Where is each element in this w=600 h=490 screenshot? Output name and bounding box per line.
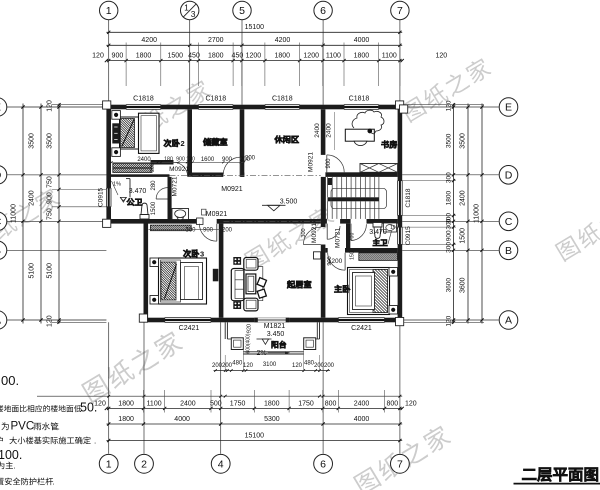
interior dims storage [191, 157, 250, 163]
door M1821 (balcony, south) [254, 318, 289, 323]
grid bubble 1 (bottom) [99, 322, 118, 473]
svg-text:2400: 2400 [354, 401, 370, 408]
door M0921 study [327, 155, 344, 172]
svg-text:800: 800 [386, 401, 398, 408]
column marker NE corner [396, 101, 408, 113]
svg-text:2400: 2400 [314, 123, 321, 138]
room label living [287, 281, 311, 289]
svg-text:D: D [505, 169, 513, 181]
svg-text:B: B [0, 245, 1, 257]
label C1818 #4 [349, 95, 370, 102]
svg-text:120: 120 [292, 363, 303, 369]
svg-text:7: 7 [397, 459, 403, 471]
wall exterior north (grid E) [106, 105, 402, 110]
right dimension texts [446, 100, 481, 327]
grid bubble 4 (bottom) [211, 322, 230, 473]
wall interior grid 6 lower [321, 177, 326, 318]
svg-text:1800: 1800 [208, 53, 224, 60]
svg-text:4: 4 [218, 459, 224, 471]
svg-text:1200: 1200 [303, 53, 319, 60]
label C0915 west [98, 187, 105, 207]
svg-text:C1818: C1818 [133, 95, 154, 102]
wall step at grid C west [106, 219, 150, 224]
label C1818 #1 [133, 95, 154, 102]
interior dim balcony left [246, 324, 253, 354]
interior dim study door [326, 158, 332, 169]
svg-text:120: 120 [405, 401, 417, 408]
note line 6 [0, 462, 16, 471]
svg-text:3.450: 3.450 [267, 331, 285, 338]
wall living north (grid C) [217, 219, 321, 224]
wall stair south (grid C) [321, 219, 398, 224]
wall bath east [168, 177, 172, 219]
door M0921 bedroom2 [174, 162, 188, 176]
door M0721 bath [156, 188, 167, 199]
column marker W step [103, 219, 111, 227]
label M0921 corridor-bedroom3 [202, 209, 228, 218]
svg-text:1800: 1800 [136, 53, 152, 60]
wall interior grid 6 upper [321, 109, 326, 155]
bed (bedroom3) [150, 258, 207, 304]
svg-text:M0921: M0921 [206, 211, 228, 218]
shower partition (bath) [112, 179, 131, 201]
svg-text:200: 200 [324, 363, 335, 369]
svg-text:600(400): 600(400) [246, 333, 252, 353]
svg-text:C2421: C2421 [351, 325, 372, 332]
balcony parapet [225, 322, 319, 354]
svg-text:3.500: 3.500 [280, 198, 298, 205]
dimension row axis spans (top) [106, 37, 402, 47]
svg-text:C1818: C1818 [205, 95, 226, 102]
toilet (master bath) [373, 223, 382, 239]
grid bubble 5 (top) [233, 1, 251, 104]
interior dim master door [327, 256, 333, 265]
svg-text:A: A [0, 315, 1, 327]
svg-text:C2421: C2421 [179, 325, 200, 332]
svg-text:200: 200 [150, 163, 156, 172]
room label bedroom2 [164, 139, 185, 148]
room label storage [203, 138, 227, 146]
svg-text:700: 700 [350, 233, 356, 242]
svg-text:180: 180 [164, 157, 173, 163]
label C0915 east [405, 226, 412, 246]
column marker SW corner [139, 314, 147, 322]
svg-text:280: 280 [151, 180, 157, 191]
svg-text:200: 200 [222, 228, 233, 234]
svg-text:7: 7 [397, 5, 403, 17]
svg-text:.: . [94, 437, 96, 446]
dimension row total 15100 (bottom) [106, 432, 402, 442]
grid bubble C (right) [402, 212, 518, 231]
grid bubble B (right) [402, 241, 518, 260]
wall exterior south (grid A) [144, 318, 403, 323]
svg-text:750: 750 [47, 176, 54, 188]
svg-text:800: 800 [325, 401, 337, 408]
note line 2 [0, 401, 97, 415]
svg-text:900: 900 [176, 157, 185, 163]
bed (master bedroom) [348, 268, 398, 315]
wall corridor south (grid C) w/ bedroom3 top [148, 219, 223, 224]
grid bubble 1/3 (top) [181, 1, 199, 104]
note line 1 (clipped) [1, 373, 19, 388]
svg-text:C: C [505, 216, 513, 228]
label M0721 bath [172, 176, 179, 196]
wall exterior west upper (grid 1) [106, 105, 111, 224]
level mark 3.470 (bath) [113, 182, 146, 203]
room label bath [127, 198, 142, 205]
label C1818 #3 [272, 95, 293, 102]
svg-text:1800: 1800 [118, 401, 134, 408]
wall exterior east (grid 7) [398, 105, 403, 323]
svg-text:2%: 2% [256, 350, 266, 357]
column marker living SE [314, 252, 321, 259]
label M0721 master bath [335, 228, 342, 248]
svg-text:2400: 2400 [180, 401, 196, 408]
svg-text:M0721: M0721 [335, 228, 342, 248]
dimension row total 15100 (top) [106, 24, 402, 34]
column marker grid4 south [197, 218, 204, 225]
svg-text:3500: 3500 [29, 133, 36, 149]
svg-text:3100: 3100 [263, 362, 277, 368]
svg-text:15100: 15100 [245, 432, 265, 439]
svg-text:1800: 1800 [354, 53, 370, 60]
svg-text:C1818: C1818 [405, 188, 412, 208]
grid bubble A (left, clipped) [0, 311, 106, 330]
svg-text:900: 900 [446, 230, 453, 241]
svg-text:5100: 5100 [29, 263, 36, 279]
svg-text:750: 750 [47, 208, 54, 220]
wall storage south (grid D) [192, 173, 244, 177]
svg-text:200: 200 [222, 363, 233, 369]
room label study [381, 141, 396, 149]
svg-text:3.470: 3.470 [129, 188, 147, 195]
window C1818 #4 (north) [344, 105, 379, 110]
interior dim leisure [245, 123, 321, 162]
grid bubble 7 (top) [391, 1, 409, 104]
tv (bedroom3) [213, 269, 219, 282]
interior dim bath [150, 163, 157, 215]
svg-text:C0915: C0915 [98, 187, 105, 207]
wardrobe (bedroom2) [113, 164, 152, 173]
right dimension lines [402, 103, 484, 324]
door M0921 master bath entry [351, 224, 366, 241]
svg-text:1%: 1% [113, 182, 121, 188]
left dimension texts [11, 100, 54, 327]
grid bubble 7 (bottom) [391, 322, 410, 473]
svg-text:E: E [505, 102, 512, 114]
svg-text:120: 120 [47, 315, 54, 327]
centerline grid D [170, 175, 321, 177]
wall bedroom3 east [219, 224, 224, 318]
svg-text:00.: 00. [1, 373, 19, 388]
svg-text:.: . [14, 462, 16, 471]
room label master-bath [373, 239, 387, 246]
svg-text:150: 150 [350, 251, 356, 260]
label C2421 #1 [179, 325, 200, 332]
watermark bottom-center [352, 423, 452, 490]
svg-text:3500: 3500 [446, 133, 453, 148]
svg-text:2: 2 [141, 459, 147, 471]
svg-text:1: 1 [106, 459, 112, 471]
label C1818 #2 [205, 95, 226, 102]
svg-text:C1818: C1818 [349, 95, 370, 102]
window C1818 #3 (north) [265, 105, 300, 110]
dimension row wall segments (top) [92, 43, 447, 87]
svg-text:3600: 3600 [446, 278, 453, 293]
svg-text:A: A [505, 315, 512, 327]
svg-text:1800: 1800 [446, 190, 453, 205]
note line 7 [0, 478, 55, 487]
label M0921 study [308, 152, 315, 172]
svg-text:6: 6 [320, 459, 326, 471]
svg-text:120: 120 [446, 315, 453, 326]
note line 5 [0, 448, 22, 462]
svg-text:B: B [505, 245, 512, 257]
washbasin (master bath) [384, 223, 397, 232]
svg-text:450: 450 [232, 53, 244, 60]
svg-text:300: 300 [301, 228, 307, 237]
balcony level 3.450 and slope [256, 331, 289, 357]
label M0921 living [301, 223, 318, 243]
centerline grid C [223, 220, 320, 222]
svg-text:M0721: M0721 [172, 176, 179, 196]
note line 3 [1, 421, 59, 433]
svg-text:1800: 1800 [118, 416, 134, 423]
svg-text:1200: 1200 [246, 53, 262, 60]
svg-text:120: 120 [92, 53, 104, 60]
svg-text:1500: 1500 [168, 53, 184, 60]
svg-text:M0921: M0921 [221, 186, 243, 193]
svg-text:120: 120 [446, 100, 453, 111]
svg-text:900: 900 [112, 53, 124, 60]
svg-text:11000: 11000 [11, 204, 18, 223]
svg-text:200: 200 [245, 156, 256, 162]
watermark bottom-left large [80, 329, 184, 405]
svg-text:3: 3 [200, 250, 204, 259]
grid bubble B (left, clipped) [0, 241, 106, 260]
grid bubble E (right) [402, 98, 518, 117]
grid bubble E (left, clipped) [0, 98, 106, 117]
svg-text:300: 300 [446, 172, 453, 183]
watermark top-right [400, 56, 493, 123]
level mark 3.500 (corridor) [262, 198, 297, 211]
svg-text:1%: 1% [390, 225, 398, 231]
svg-text:1: 1 [106, 5, 112, 17]
left dimension lines [21, 103, 106, 324]
window C1818 #1 (north) [126, 105, 161, 110]
svg-text:M1821: M1821 [264, 323, 286, 330]
watermark top-left [120, 78, 213, 145]
svg-text:2400: 2400 [326, 123, 333, 138]
toilet (bath) [140, 203, 149, 219]
window C2421 #1 (south, bedroom3) [165, 318, 211, 323]
svg-text:900: 900 [47, 192, 54, 204]
svg-text:M0921: M0921 [311, 223, 318, 243]
wall interior grid 5 [240, 109, 245, 177]
svg-text:15100: 15100 [245, 24, 265, 31]
svg-text:50.: 50. [80, 401, 97, 415]
window C0915 east (master bath) [398, 227, 403, 244]
column marker NW corner [103, 101, 111, 109]
svg-text:3.470: 3.470 [369, 229, 387, 236]
svg-text:5100: 5100 [47, 263, 54, 279]
bench (study) [360, 164, 398, 173]
grid bubble C (left, clipped) [0, 212, 106, 231]
svg-text:3500: 3500 [47, 133, 54, 149]
svg-text:5: 5 [239, 5, 245, 17]
grid bubble A (right) [402, 311, 518, 330]
column marker SE corner [396, 318, 404, 326]
watermark center (living room) [243, 204, 336, 271]
svg-text:C1818: C1818 [272, 95, 293, 102]
svg-text:900: 900 [327, 256, 333, 265]
wall master-bath west [346, 224, 350, 248]
svg-text:900: 900 [203, 228, 214, 234]
bed (bedroom2) [112, 111, 159, 157]
wardrobe (master bedroom) [359, 253, 398, 261]
wall stair-hall north (grid D) [325, 172, 397, 177]
svg-text:3600: 3600 [460, 277, 467, 293]
svg-text:300: 300 [446, 218, 453, 229]
svg-text:920: 920 [247, 324, 253, 333]
room label bedroom3 [183, 250, 204, 259]
svg-text:500: 500 [185, 228, 196, 234]
dimension row axis spans (bottom) [106, 416, 402, 426]
title 二层平面图 [514, 468, 600, 484]
svg-text:2400: 2400 [460, 190, 467, 206]
svg-text:1100: 1100 [147, 401, 162, 408]
svg-text:120: 120 [47, 100, 54, 112]
svg-text:2: 2 [181, 139, 185, 148]
svg-text:1500: 1500 [460, 228, 467, 244]
svg-text:1750: 1750 [298, 401, 314, 408]
svg-text:480: 480 [232, 360, 243, 366]
svg-text:4000: 4000 [174, 416, 190, 423]
window C2421 #2 (south, master) [338, 318, 384, 323]
svg-text:450: 450 [188, 53, 200, 60]
svg-text:C0915: C0915 [405, 226, 412, 246]
svg-text:1800: 1800 [275, 53, 291, 60]
label C2421 #2 [351, 325, 372, 332]
grid bubble 1 (top) [100, 1, 118, 104]
window C0915 west (bath) [106, 188, 111, 207]
label M1821 [264, 323, 286, 330]
label C1818 east [405, 188, 412, 208]
svg-text:120: 120 [435, 53, 447, 60]
svg-text:.: . [53, 478, 55, 487]
svg-text:M0921: M0921 [308, 152, 315, 172]
grid bubble 2 (bottom) [135, 322, 154, 473]
interior dims bedroom2 [110, 157, 195, 164]
stairs [326, 177, 387, 219]
watermark left-edge [0, 186, 62, 253]
svg-text:4000: 4000 [354, 416, 370, 423]
grid bubble D (right) [402, 166, 518, 185]
svg-text:.: . [58, 422, 60, 432]
washbasin (corridor) [172, 209, 189, 220]
wall partition grid D (bath top) [111, 174, 170, 177]
wardrobe (bedroom3) [150, 225, 191, 231]
interior dim master hall [328, 233, 356, 265]
grid bubble D (left, clipped) [0, 166, 106, 185]
svg-text:E: E [0, 102, 1, 114]
door M0921 living [303, 227, 320, 244]
svg-text:3500: 3500 [460, 133, 467, 149]
window C1818 #2 (north) [198, 105, 233, 110]
svg-text:M0921: M0921 [169, 166, 189, 173]
svg-text:11000: 11000 [474, 204, 481, 223]
svg-text:4200: 4200 [275, 37, 291, 44]
extension line below plan [37, 395, 402, 398]
svg-text:1800: 1800 [264, 401, 280, 408]
sofa group (living room) [231, 257, 266, 311]
wall master-bed north (grid B) [325, 248, 397, 253]
svg-text:PVC: PVC [11, 421, 35, 433]
note line 4 [0, 437, 96, 446]
svg-text:1750: 1750 [230, 401, 246, 408]
watermark right-edge [554, 195, 600, 262]
room label leisure [275, 136, 299, 143]
svg-text:1500: 1500 [151, 201, 157, 215]
label M0921 bedroom2 [169, 166, 189, 173]
window C1818 east (stair) [398, 181, 403, 216]
dimension row wall segments (bottom) [94, 390, 417, 413]
svg-text:4000: 4000 [354, 37, 370, 44]
desk and chair (study) [345, 110, 384, 145]
svg-text:1: 1 [184, 2, 189, 12]
svg-text:5300: 5300 [264, 416, 280, 423]
door M0721 hall entry [327, 224, 340, 240]
svg-text:100.: 100. [0, 448, 22, 462]
wall bedroom2 south stub [151, 160, 174, 165]
svg-text:1100: 1100 [382, 53, 397, 60]
svg-text:300: 300 [446, 242, 453, 253]
svg-text:2700: 2700 [208, 37, 224, 44]
wall interior grid 1/3 [187, 109, 192, 177]
balcony dimensions [212, 350, 335, 372]
svg-text:3: 3 [191, 9, 196, 19]
door M0921 master bedroom [328, 253, 345, 270]
interior dims bedroom3 door [149, 228, 233, 234]
room label master [334, 285, 350, 292]
grid bubble 6 (top) [314, 1, 332, 104]
interior dim study width [326, 112, 335, 150]
svg-text:900: 900 [326, 158, 332, 169]
svg-text:1100: 1100 [326, 53, 341, 60]
door M0921 bedroom3 [199, 224, 216, 241]
svg-text:120: 120 [243, 363, 254, 369]
svg-text:6: 6 [320, 5, 326, 17]
grid bubble 6 (bottom) [314, 322, 333, 473]
door M0921 storage [223, 157, 240, 174]
svg-text:4200: 4200 [141, 37, 157, 44]
label M0921 storage [221, 186, 243, 193]
svg-text:500: 500 [210, 401, 222, 408]
wall exterior west lower (grid 2) [144, 219, 149, 322]
svg-text:2400: 2400 [29, 190, 36, 206]
level mark 3.470 (master bath) [369, 225, 398, 244]
